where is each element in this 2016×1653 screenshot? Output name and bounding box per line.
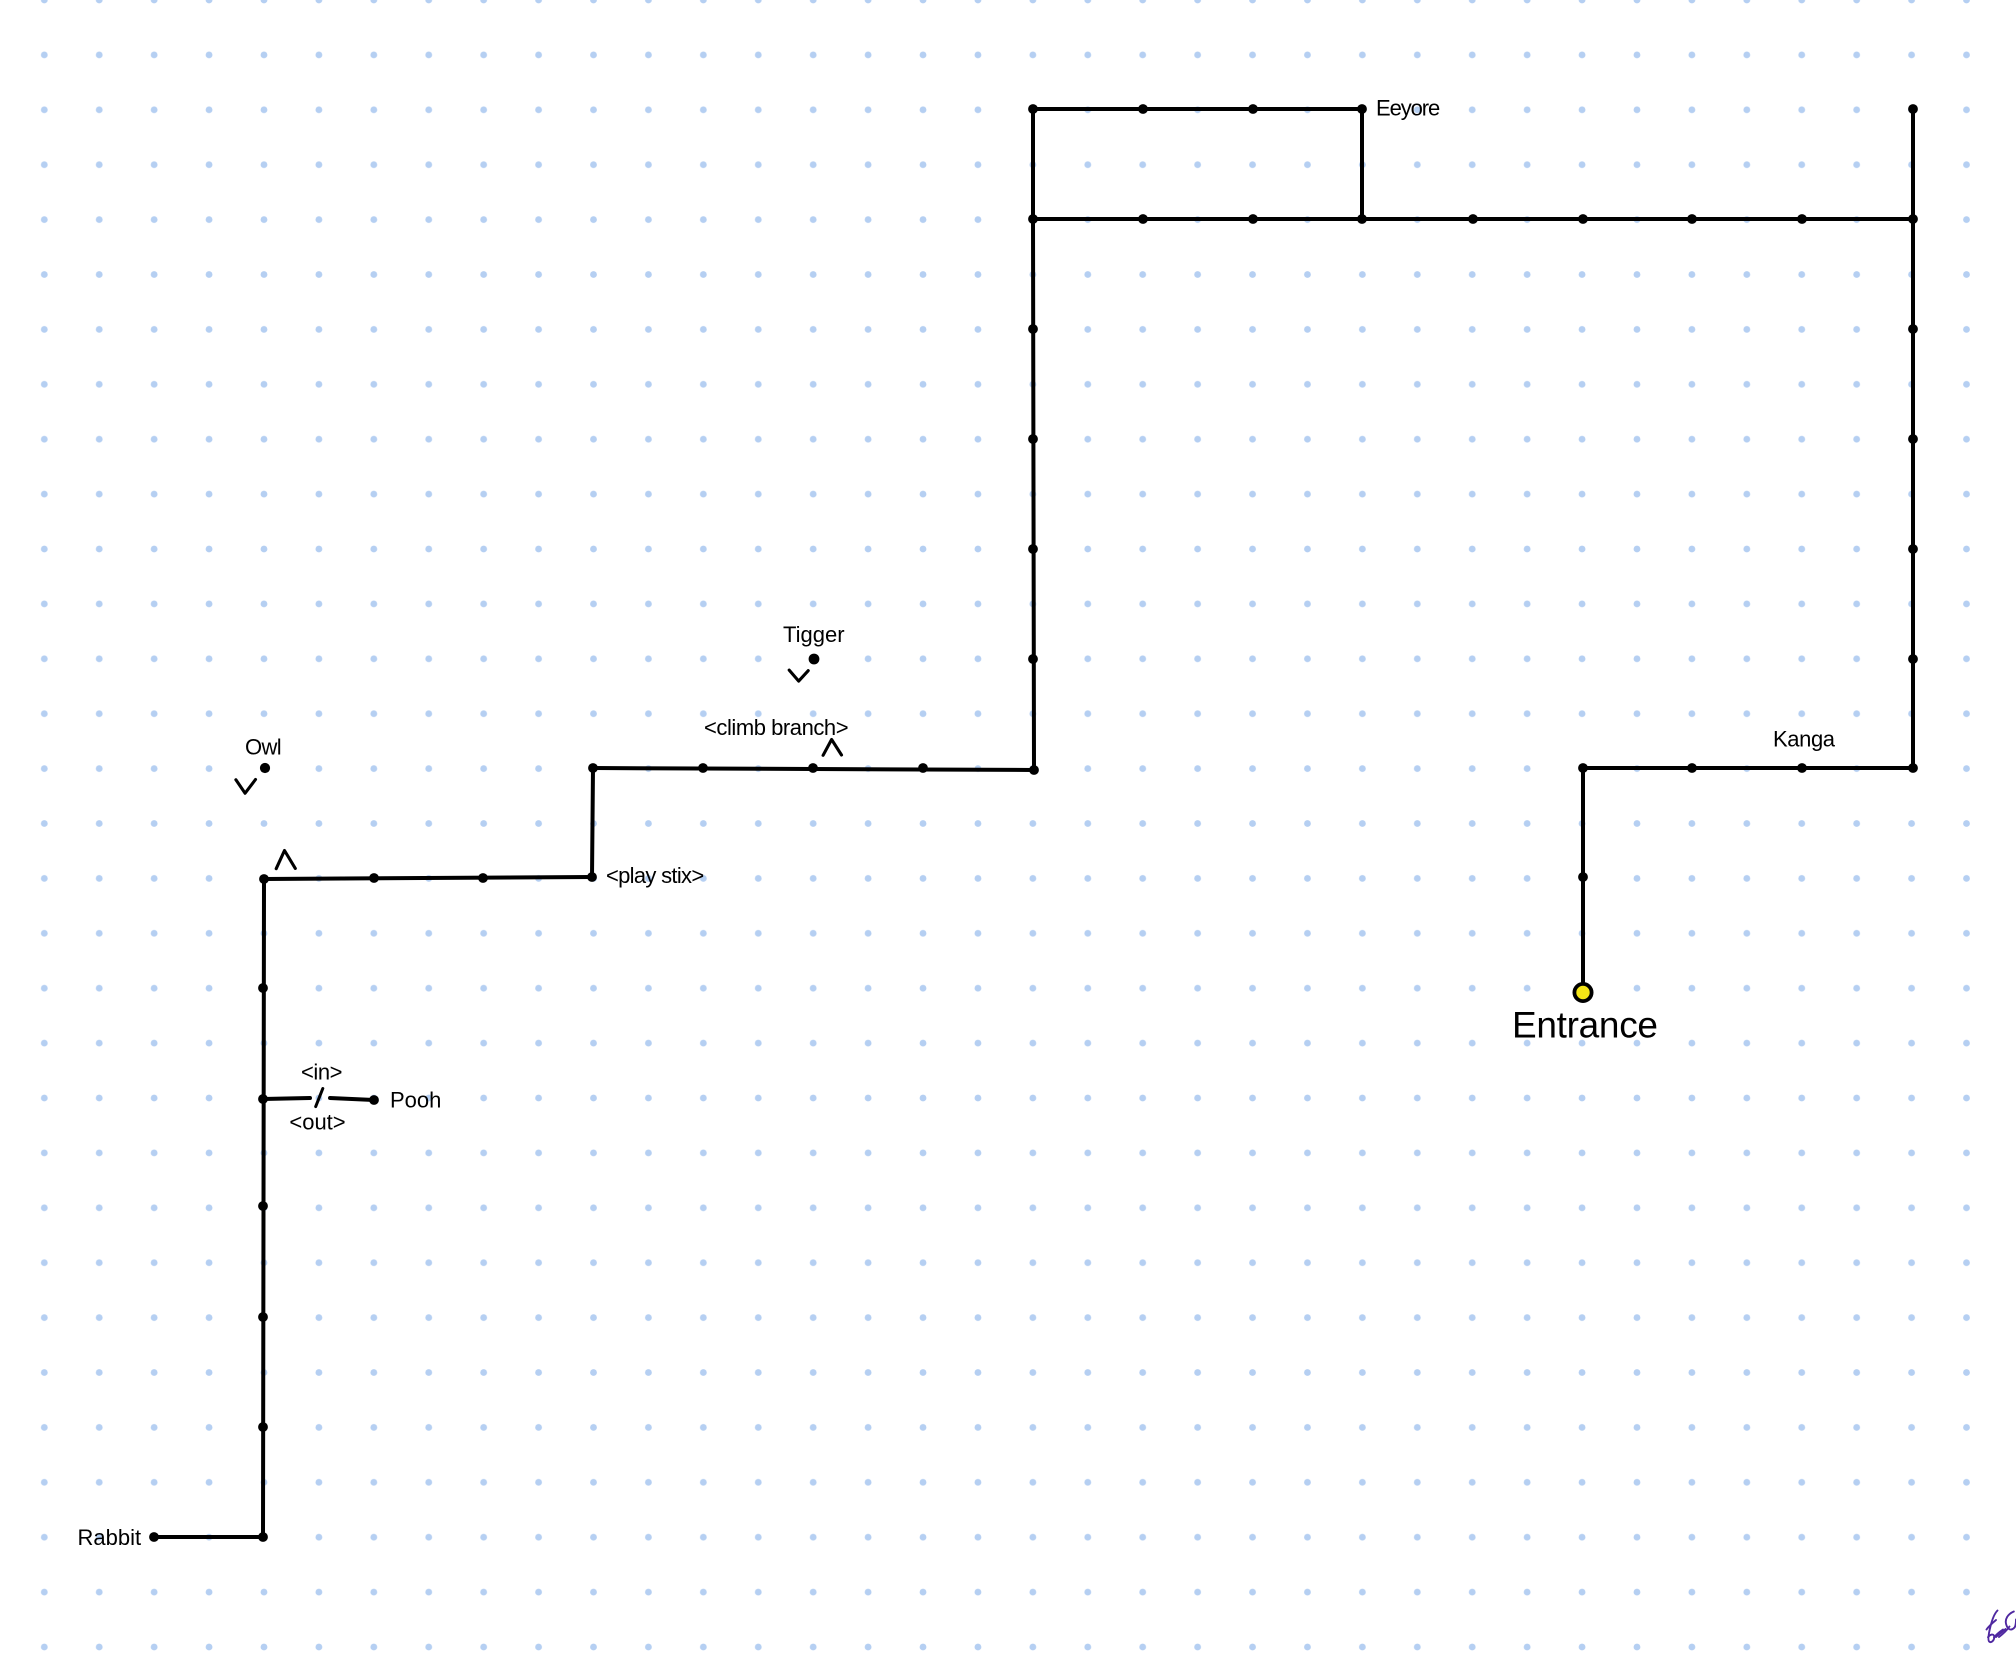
wire col10 short vertical [592,768,593,877]
node row2 col20 [1138,104,1148,114]
svg-text:Entrance: Entrance [1512,1005,1658,1046]
node Owl dot [260,763,270,773]
svg-text:<play stix>: <play stix> [606,863,703,888]
node climb row col14 [808,763,818,773]
node climb row col12 [698,763,708,773]
wire row14 horizontal to climb branch [593,768,1034,770]
node right vertical row8 [1908,434,1918,444]
node Tigger dot [809,654,820,665]
wire top rect left side [1031,109,1035,219]
wire right vertical col34 [1911,109,1915,768]
node kanga col30 [1687,763,1697,773]
svg-text:<climb branch>: <climb branch> [704,715,848,740]
wire kanga horizontal [1583,766,1913,770]
wire col4 long vertical [263,879,264,1537]
node row4 col28 [1578,214,1588,224]
wire pooh right part [330,1098,374,1100]
chevron v below Owl [236,780,256,794]
slash between in and out [316,1089,323,1107]
node row4 col22 [1248,214,1258,224]
chevron up above owl row corner [276,851,295,869]
node corner owl row col4 [259,874,269,884]
node Rabbit [149,1532,159,1542]
node climb row col16 [918,763,928,773]
node row4 col20 [1138,214,1148,224]
wire row16 horizontal play stix [264,877,592,879]
node row4 col32 [1797,214,1807,224]
node row4 col18 junction [1028,214,1038,224]
node playstix row col8 [478,873,488,883]
signature purple squiggle [1987,1611,2016,1643]
wire pooh left part [263,1098,310,1099]
wire left vertical col18 [1033,219,1034,770]
wire entrance vertical [1581,768,1585,982]
node top right end [1908,104,1918,114]
node row4 col34 junction [1908,214,1918,224]
node entrance mid row16 [1578,872,1588,882]
wire top rect top side (Eeyore loop) [1033,107,1362,111]
svg-text:Owl: Owl [245,735,281,760]
node left vertical row8 [1028,434,1038,444]
node col4 row18 [258,983,268,993]
node row4 col30 [1687,214,1697,224]
node row4 col24 [1357,214,1367,224]
node col4 row24 [258,1312,268,1322]
node left vertical row6 [1028,324,1038,334]
node left vertical row12 [1028,654,1038,664]
svg-text:Tigger: Tigger [783,622,845,647]
node right vertical row6 [1908,324,1918,334]
node Kanga col32 [1797,763,1807,773]
node col4 row26 [258,1422,268,1432]
node corner climb row col10 [588,763,598,773]
svg-text:Pooh: Pooh [390,1088,441,1113]
node pooh junction [258,1094,268,1104]
node corner col34 row14 [1908,763,1918,773]
wire top rect right side below Eeyore [1360,109,1364,219]
svg-text:Eeyore: Eeyore [1376,96,1440,121]
node col4 row22 [258,1201,268,1211]
node rabbit corner [258,1532,268,1542]
node row2 col22 [1248,104,1258,114]
svg-text:Rabbit: Rabbit [78,1525,142,1550]
svg-text:<in>: <in> [301,1060,342,1085]
svg-text:Kanga: Kanga [1773,727,1836,752]
node kanga corner col28 [1578,763,1588,773]
node playstix row col6 [369,873,379,883]
node left vertical row10 [1028,544,1038,554]
node Eeyore [1357,104,1367,114]
node play stix corner [587,872,597,882]
Entrance circle [1574,984,1591,1001]
wire long horizontal row4 [1033,217,1913,221]
node right vertical row10 [1908,544,1918,554]
node right vertical row12 [1908,654,1918,664]
node row4 col26 [1468,214,1478,224]
node Pooh [369,1095,379,1105]
svg-text:<out>: <out> [289,1110,345,1135]
chevron v below Tigger [789,670,808,681]
node top-left corner rect [1028,104,1038,114]
wire rabbit horizontal [154,1535,263,1539]
node corner col18 row14 [1029,765,1039,775]
chevron up climb branch [823,740,841,756]
